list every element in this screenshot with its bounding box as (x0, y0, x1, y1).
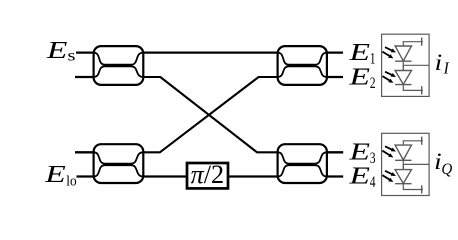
label Elo (local oscillator input) (44, 162, 77, 189)
svg-text:Q: Q (441, 161, 452, 178)
label E1 (348, 40, 375, 67)
light arrows into D1 (382, 47, 396, 58)
wire X2 out2 to phase shifter (142, 175, 187, 177)
svg-text:lo: lo (66, 173, 76, 189)
wire stub into coupler X2 port1 (75, 151, 95, 153)
wire phase shifter to X4 in2 (229, 175, 279, 177)
svg-text:π/2: π/2 (191, 160, 225, 189)
coupler X3 (top-right 2x2 coupler) (278, 46, 327, 85)
wire X1 out2 to X4 in1 (diagonal down) (142, 77, 278, 152)
wire X3 out2 (to E2) (326, 76, 343, 78)
label E4 (348, 164, 376, 191)
svg-text:4: 4 (370, 174, 376, 191)
node BD1 midpoint output wire (403, 61, 429, 65)
svg-text:E: E (348, 65, 370, 91)
svg-text:3: 3 (370, 150, 376, 167)
phase shifter PS1 (pi/2) (187, 160, 228, 189)
svg-text:s: s (68, 48, 76, 65)
wire X2 out1 to X3 in2 (diagonal up) (142, 77, 278, 152)
wire X1 out1 to X3 in1 (straight top bus) (142, 51, 278, 53)
coupler X1 (top-left 2x2 coupler) (94, 46, 144, 85)
photodiode D4 (bottom of BD2) (395, 164, 411, 183)
balanced detector BD1 box (382, 34, 430, 96)
coupler X4 (bottom-right 2x2 coupler) (278, 144, 327, 183)
photodiode D3 (top of BD2) (395, 145, 411, 160)
svg-text:1: 1 (370, 50, 376, 67)
svg-text:i: i (435, 50, 443, 75)
svg-text:E: E (46, 38, 68, 64)
balanced detector BD2 box (382, 133, 430, 195)
label E2 (348, 65, 375, 92)
wire Elo input to coupler X2 port2 (77, 175, 95, 177)
svg-text:E: E (44, 162, 66, 188)
photodiode D1 (top of BD1) (395, 46, 411, 61)
label iI (in-phase photocurrent) (435, 50, 451, 77)
svg-text:E: E (348, 164, 370, 190)
bias lead D4 (cathode to rail) (403, 184, 423, 194)
svg-text:E: E (348, 40, 370, 66)
wire Es input to coupler X1 port1 (76, 51, 95, 53)
wire X4 out2 (to E4) (326, 175, 343, 177)
svg-text:E: E (348, 140, 370, 166)
bias lead D1 (anode to rail) (403, 38, 423, 47)
label iQ (quadrature photocurrent) (434, 149, 452, 178)
wire stub into coupler X1 port2 (75, 76, 95, 78)
bias lead D3 (anode to rail) (403, 137, 423, 146)
light arrows into D4 (382, 171, 396, 182)
coupler X2 (bottom-left 2x2 coupler) (94, 144, 144, 183)
bias lead D2 (cathode to rail) (403, 85, 423, 95)
wire X3 out1 (to E1) (326, 51, 343, 53)
svg-text:2: 2 (370, 75, 376, 92)
label E3 (348, 140, 376, 167)
light arrows into D2 (382, 72, 396, 83)
label Es (signal input) (46, 38, 76, 65)
photodiode D2 (bottom of BD1) (395, 65, 411, 84)
light arrows into D3 (382, 146, 396, 157)
node BD2 midpoint output wire (403, 160, 429, 164)
wire X4 out1 (to E3) (326, 151, 343, 153)
